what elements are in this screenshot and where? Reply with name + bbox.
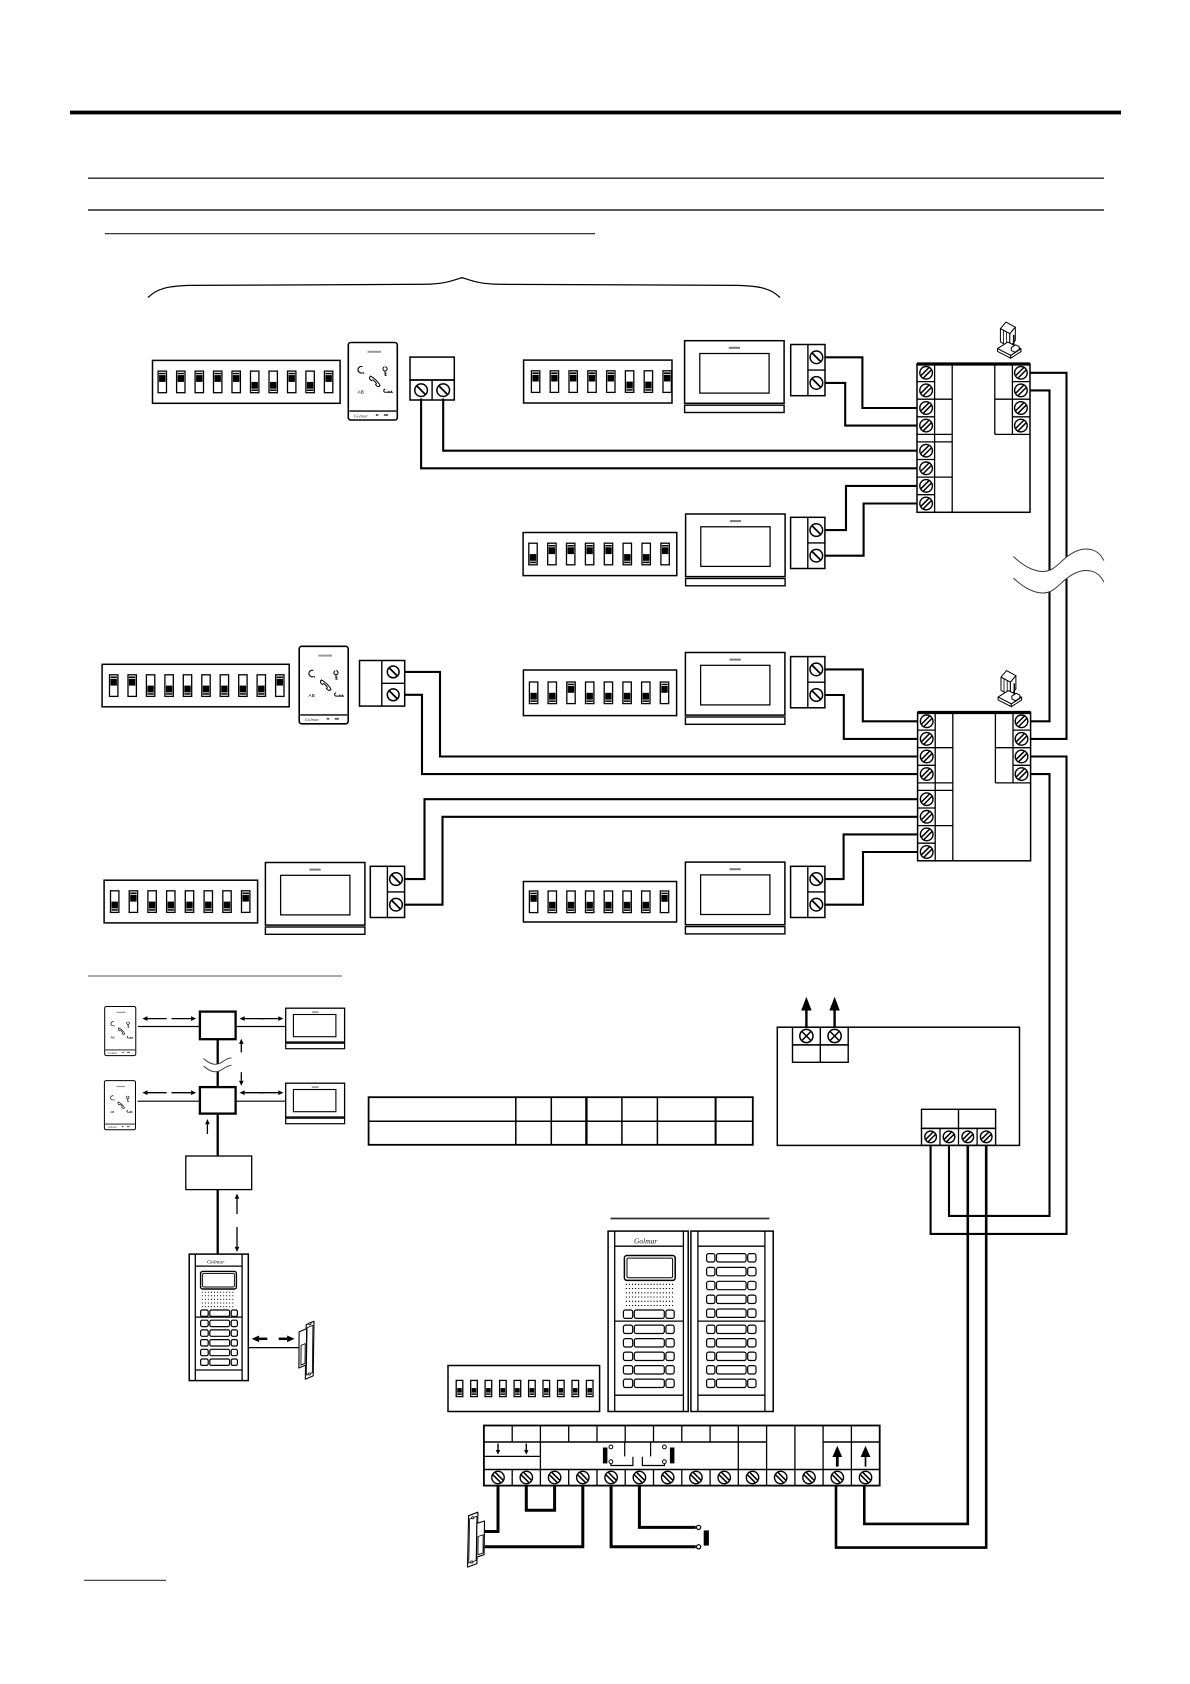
svg-text:Golmar: Golmar	[108, 1051, 118, 1055]
svg-text:Golmar: Golmar	[207, 1260, 225, 1266]
svg-text:AB: AB	[308, 693, 314, 699]
svg-text:AB: AB	[111, 1036, 115, 1040]
svg-text:Golmar: Golmar	[354, 413, 369, 418]
svg-text:Golmar: Golmar	[634, 1237, 657, 1246]
svg-text:Golmar: Golmar	[305, 717, 320, 722]
svg-text:AB: AB	[358, 389, 364, 395]
svg-text:AB: AB	[110, 1110, 114, 1114]
svg-text:Golmar: Golmar	[108, 1125, 118, 1129]
